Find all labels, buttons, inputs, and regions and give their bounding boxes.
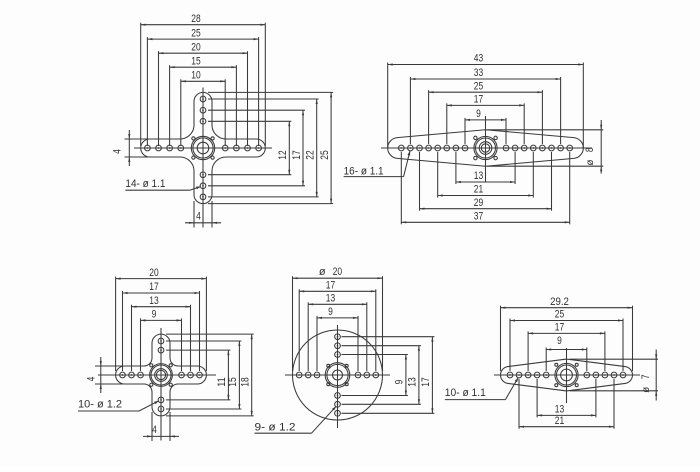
dimension dia 7 [640, 350, 657, 401]
svg-text:ø: ø [319, 266, 326, 278]
dimension horn C width 17 [123, 281, 200, 294]
svg-text:18: 18 [240, 377, 252, 386]
svg-text:10- ø 1.2: 10- ø 1.2 [78, 399, 122, 411]
horn B right hole [567, 145, 573, 151]
extension line [382, 276, 384, 371]
horn A vertical centerline [202, 88, 204, 228]
horn D center hub [325, 363, 350, 388]
horn C top-arm hole [158, 347, 164, 353]
extension line [208, 185, 305, 187]
horn E right hole [602, 372, 608, 378]
horn B horizontal centerline [381, 147, 592, 149]
svg-text:13: 13 [407, 377, 419, 386]
extension line [169, 65, 171, 146]
extension line [169, 412, 171, 441]
extension line [208, 91, 333, 93]
svg-text:25: 25 [191, 27, 200, 39]
dimension horn A arm width 4 [112, 130, 131, 166]
horn E vertical centerline [566, 348, 568, 403]
svg-text:12: 12 [277, 150, 289, 159]
extension line [208, 174, 291, 176]
horn A left-arm hole [156, 145, 162, 151]
svg-text:9: 9 [476, 108, 481, 120]
horn C horizontal centerline [98, 374, 216, 376]
extension line [487, 129, 603, 131]
dimension horn C height 11 [216, 350, 229, 400]
svg-text:28: 28 [191, 13, 200, 25]
extension line [224, 79, 226, 146]
horn E left hole [534, 372, 540, 378]
horn B left hole [398, 145, 404, 151]
extension line [342, 345, 421, 347]
horn B left hole [417, 145, 423, 151]
extension line [258, 37, 260, 146]
dimension horn B span 43 [388, 53, 584, 66]
horn B left hole [408, 145, 414, 151]
extension line [181, 318, 183, 371]
horn A bottom-arm hole [200, 194, 206, 200]
label 10-dia 1.1 with leader [445, 378, 518, 400]
dimension horn C arm width 4 (bottom) [143, 424, 179, 438]
horn D bottom hole [335, 401, 341, 407]
horn B left hole [435, 145, 441, 151]
svg-text:20: 20 [333, 266, 342, 278]
svg-text:25: 25 [319, 150, 331, 159]
extension line [366, 302, 368, 371]
extension line [505, 118, 507, 144]
horn A right-arm hole [256, 145, 262, 151]
horn C vertical centerline [160, 328, 162, 441]
horn A left-arm hole [178, 145, 184, 151]
horn B right hole [521, 145, 527, 151]
extension line [387, 63, 389, 149]
extension line [131, 305, 133, 371]
extension line [122, 291, 124, 371]
svg-text:10: 10 [191, 70, 200, 82]
horn B right hole [512, 145, 518, 151]
extension line [570, 358, 658, 360]
svg-text:10- ø 1.1: 10- ø 1.1 [445, 387, 486, 399]
extension line [115, 277, 117, 371]
svg-text:4: 4 [112, 149, 124, 154]
dimension horn A width 15 [170, 55, 237, 68]
svg-text:20: 20 [149, 267, 158, 279]
horn D top hole [335, 352, 341, 358]
extension line [570, 390, 658, 392]
horn E left hole [543, 372, 549, 378]
dimension horn A width 20 [159, 41, 248, 54]
horn E left hole [525, 372, 531, 378]
extension line [569, 152, 571, 224]
extension line [298, 289, 300, 371]
horn B left hole [444, 145, 450, 151]
extension line [541, 90, 543, 144]
label 16-dia 1.1 with leader [344, 151, 411, 178]
label 14-dia 1.1 with leader [125, 178, 200, 190]
extension line [166, 333, 254, 335]
extension line [247, 51, 249, 146]
horn A horizontal centerline [134, 147, 272, 149]
svg-text:20: 20 [191, 41, 200, 53]
extension line [166, 408, 241, 410]
horn E horizontal centerline [494, 374, 640, 376]
dimension horn B span 17 [447, 94, 524, 107]
svg-text:17: 17 [474, 94, 483, 106]
extension line [419, 152, 421, 211]
extension line [545, 348, 547, 372]
dimension horn B span 25 [429, 80, 543, 93]
svg-text:17: 17 [291, 150, 303, 159]
extension line [140, 318, 142, 371]
extension line [208, 98, 319, 100]
extension line [316, 316, 318, 371]
dimension horn E span 29.2 [501, 296, 633, 309]
dimension horn B span 33 [410, 67, 560, 80]
dimension horn D span 9 [394, 355, 407, 396]
extension line [595, 379, 597, 417]
extension line [166, 399, 230, 401]
horn C top-arm hole [158, 338, 164, 344]
dimension horn C width 9 [141, 309, 182, 322]
svg-text:17: 17 [420, 377, 432, 386]
svg-text:33: 33 [474, 67, 483, 79]
horn D left hole [296, 372, 302, 378]
dimension horn B span 13 [456, 170, 515, 183]
dimension horn D span 9 [317, 306, 358, 319]
extension line [190, 305, 192, 371]
svg-text:21: 21 [555, 415, 564, 427]
horn C left-arm hole [138, 372, 144, 378]
horn E center hub [555, 363, 578, 386]
horn E right hole [593, 372, 599, 378]
extension line [292, 276, 294, 371]
extension line [342, 354, 408, 356]
dimension horn E span 13 [537, 404, 596, 417]
svg-text:25: 25 [555, 309, 564, 321]
horn D left hole [314, 372, 320, 378]
svg-text:4: 4 [152, 424, 157, 436]
horn D top hole [335, 343, 341, 349]
extension line [509, 319, 511, 372]
extension line [208, 196, 319, 198]
dimension horn B span 29 [420, 197, 552, 210]
horn A top-arm hole [200, 96, 206, 102]
servo horn E (short double arm) outline [501, 359, 633, 391]
extension line [632, 306, 634, 371]
dimension horn B span 21 [438, 184, 534, 197]
svg-text:17: 17 [555, 322, 564, 334]
extension line [400, 152, 402, 224]
horn A left-arm hole [167, 145, 173, 151]
extension line [437, 152, 439, 198]
horn B right hole [549, 145, 555, 151]
extension line [428, 90, 430, 144]
svg-text:13: 13 [326, 293, 335, 305]
horn C right-arm hole [179, 372, 185, 378]
svg-text:ø: ø [641, 387, 652, 393]
dimension horn C height 18 [240, 334, 253, 416]
extension line [487, 165, 603, 167]
horn B right hole [530, 145, 536, 151]
extension line [536, 379, 538, 417]
extension line [613, 379, 615, 429]
horn D vertical centerline [337, 325, 339, 428]
horn E right hole [620, 372, 626, 378]
horn D right hole [355, 372, 361, 378]
svg-text:13: 13 [555, 404, 564, 416]
horn B right hole [558, 145, 564, 151]
horn C left-arm hole [129, 372, 135, 378]
extension line [307, 302, 309, 371]
extension line [95, 383, 123, 385]
svg-text:29.2: 29.2 [550, 296, 569, 308]
extension line [532, 152, 534, 198]
dimension horn B span 37 [401, 211, 569, 224]
dimension horn C height 15 [227, 341, 240, 409]
extension line [464, 118, 466, 144]
horn D left hole [305, 372, 311, 378]
horn E right hole [584, 372, 590, 378]
svg-text:9: 9 [152, 309, 157, 321]
dimension horn A height 22 [305, 99, 318, 197]
dimension dia 8 [584, 120, 603, 174]
svg-text:8: 8 [584, 147, 596, 152]
horn C right-arm hole [197, 372, 203, 378]
svg-text:43: 43 [474, 53, 483, 65]
horn E right hole [611, 372, 617, 378]
horn C bottom-arm hole [158, 397, 164, 403]
extension line [455, 152, 457, 184]
dimension horn D span 13 [308, 293, 367, 306]
label 9-dia 1.2 with leader [255, 406, 337, 433]
svg-text:4: 4 [196, 210, 201, 222]
extension line [95, 365, 123, 367]
horn B left hole [462, 145, 468, 151]
extension line [523, 103, 525, 144]
horn C center hub [150, 364, 173, 387]
extension line [205, 277, 207, 371]
dimension horn C width 13 [132, 295, 191, 308]
dimension horn A height 12 [277, 121, 290, 174]
horn E left hole [516, 372, 522, 378]
horn D horizontal centerline [285, 374, 390, 376]
dimension horn D span 17 [420, 337, 433, 414]
extension line [166, 415, 254, 417]
horn B right hole [540, 145, 546, 151]
extension line [151, 412, 153, 441]
extension line [375, 289, 377, 371]
dimension horn D span 17 [299, 280, 376, 293]
svg-text:16- ø 1.1: 16- ø 1.1 [344, 166, 384, 178]
dimension horn E span 25 [510, 309, 623, 322]
extension line [125, 138, 149, 140]
horn A top-arm hole [200, 107, 206, 113]
dimension horn D span 13 [407, 346, 420, 405]
dimension horn A width 25 [147, 27, 258, 40]
dimension dia 20 [293, 266, 383, 279]
label 10-dia 1.2 with leader [78, 399, 159, 412]
svg-text:4: 4 [85, 377, 97, 382]
extension line [180, 79, 182, 146]
svg-text:9: 9 [394, 380, 406, 385]
horn D top hole [335, 334, 341, 340]
extension line [166, 340, 241, 342]
dimension horn C width 20 [116, 267, 207, 280]
horn A top-arm hole [200, 118, 206, 124]
svg-text:13: 13 [149, 295, 158, 307]
extension line [125, 156, 149, 158]
svg-text:15: 15 [191, 55, 200, 67]
extension line [446, 103, 448, 144]
horn B left hole [426, 145, 432, 151]
horn B left hole [453, 145, 459, 151]
extension line [342, 336, 435, 338]
horn D bottom hole [335, 410, 341, 416]
dimension horn E span 17 [528, 322, 605, 335]
horn C bottom-arm hole [158, 406, 164, 412]
horn A bottom-arm hole [200, 183, 206, 189]
svg-text:37: 37 [474, 211, 483, 223]
svg-text:9- ø 1.2: 9- ø 1.2 [255, 421, 296, 433]
extension line [357, 316, 359, 371]
svg-text:13: 13 [474, 170, 483, 182]
horn B center hub [474, 136, 498, 160]
extension line [166, 349, 230, 351]
horn D right hole [364, 372, 370, 378]
svg-text:9: 9 [328, 306, 333, 318]
servo horn D (round disc) outline [293, 330, 383, 420]
horn A left-arm hole [145, 145, 151, 151]
horn A center hub [191, 136, 214, 159]
svg-text:22: 22 [305, 150, 317, 159]
extension line [146, 37, 148, 146]
horn A right-arm hole [222, 145, 228, 151]
dimension horn A height 17 [291, 110, 304, 186]
horn C left-arm hole [120, 372, 126, 378]
servo horn B (long double arm) outline [388, 130, 584, 166]
svg-text:15: 15 [227, 377, 239, 386]
extension line [560, 77, 562, 144]
horn A bottom-arm hole [200, 172, 206, 178]
svg-text:25: 25 [474, 80, 483, 92]
dimension horn A width 10 [181, 70, 225, 83]
extension line [208, 120, 291, 122]
extension line [586, 348, 588, 372]
svg-text:14- ø 1.1: 14- ø 1.1 [125, 178, 165, 190]
horn D right hole [373, 372, 379, 378]
extension line [604, 331, 606, 371]
extension line [409, 77, 411, 144]
extension line [582, 63, 584, 149]
extension line [527, 331, 529, 371]
svg-text:29: 29 [474, 197, 483, 209]
dimension horn E span 21 [519, 415, 614, 428]
extension line [514, 152, 516, 184]
dimension horn A arm width 4 (bottom) [185, 210, 221, 224]
horn C right-arm hole [188, 372, 194, 378]
extension line [500, 306, 502, 371]
svg-text:7: 7 [640, 374, 652, 379]
extension line [193, 201, 195, 228]
horn A right-arm hole [245, 145, 251, 151]
extension line [342, 403, 421, 405]
extension line [235, 65, 237, 146]
horn D bottom hole [335, 393, 341, 399]
dimension horn A width 28 [141, 13, 266, 26]
servo horn A (4-arm cross) outline [141, 92, 266, 203]
extension line [342, 412, 435, 414]
svg-text:ø: ø [585, 159, 596, 165]
dimension horn B span 9 [465, 108, 506, 121]
horn B right hole [503, 145, 509, 151]
horn A right-arm hole [234, 145, 240, 151]
extension line [199, 291, 201, 371]
extension line [158, 51, 160, 146]
svg-text:17: 17 [326, 280, 335, 292]
extension line [264, 23, 266, 146]
extension line [208, 109, 305, 111]
svg-text:21: 21 [474, 184, 483, 196]
dimension horn E span 9 [546, 335, 587, 351]
extension line [622, 319, 624, 372]
extension line [211, 201, 213, 228]
horn B vertical centerline [485, 116, 487, 182]
extension line [208, 203, 333, 205]
extension line [342, 395, 408, 397]
horn E left hole [507, 372, 513, 378]
extension line [551, 152, 553, 211]
dimension horn C arm width 4 [85, 357, 102, 393]
svg-text:17: 17 [149, 281, 158, 293]
servo horn C (4-arm cross) outline [116, 334, 207, 416]
extension line [140, 23, 142, 146]
extension line [518, 379, 520, 429]
dimension horn A height 25 [319, 92, 332, 203]
svg-text:9: 9 [557, 335, 562, 347]
